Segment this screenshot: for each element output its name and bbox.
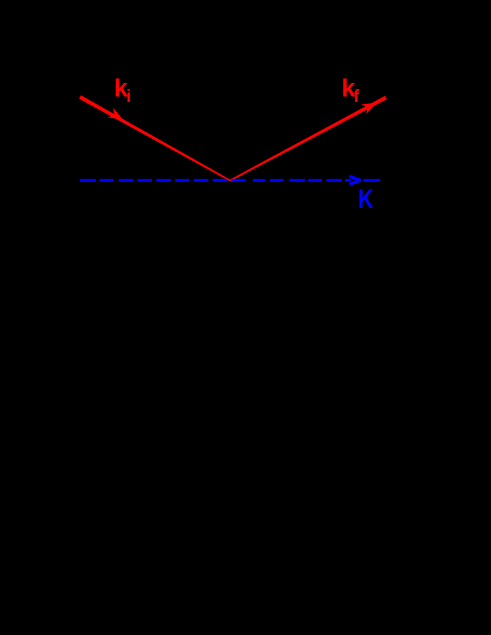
arrowhead on k_f — [361, 103, 376, 115]
label k_i — [114, 74, 131, 106]
svg-text:i: i — [126, 86, 131, 106]
incident wavevector line k_i — [79, 95, 230, 181]
final wavevector line k_f — [230, 96, 387, 182]
arrowhead on k_i — [108, 108, 123, 120]
svg-text:K: K — [358, 184, 374, 214]
label k_f — [342, 74, 360, 106]
momentum transfer dashed line K — [80, 179, 381, 182]
svg-text:f: f — [354, 86, 360, 106]
chevron arrowhead on K — [350, 176, 361, 184]
